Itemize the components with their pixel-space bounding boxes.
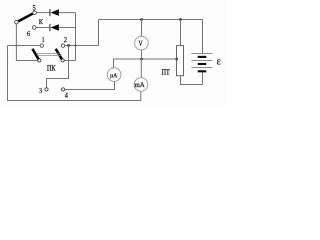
wire T1 to left rail: [8, 45, 41, 47]
battery cell 2: [191, 61, 212, 65]
node wiper PT tap: [175, 58, 178, 61]
PK pivot 2: [61, 59, 64, 62]
node top V lead: [140, 18, 143, 21]
wire D1 to junction riser: [59, 12, 76, 14]
switch K lever: [18, 14, 33, 22]
node diode riser crossing: [75, 45, 77, 47]
PK pivot 1: [38, 59, 41, 62]
label PT: [162, 69, 170, 74]
node junction wireA T3 riser: [67, 44, 70, 47]
wire uA top lead and wiper wire: [114, 59, 177, 68]
battery cell 3: [191, 68, 212, 72]
node top PT lead: [179, 18, 182, 21]
terminal 6: [32, 26, 36, 30]
label epsilon: [217, 59, 221, 64]
wire K pivot riser: [16, 24, 37, 61]
wire V top lead: [141, 20, 143, 37]
terminal 4: [62, 88, 65, 91]
label V: [139, 41, 143, 46]
PK lever 2: [56, 49, 62, 60]
diode D2: [50, 24, 59, 31]
wire V bottom lead: [141, 50, 143, 59]
label 5: [33, 5, 36, 10]
wire battery top lead: [202, 20, 204, 54]
wire mA bottom lead: [140, 91, 142, 100]
battery cell 1: [191, 54, 212, 57]
diode D1: [50, 9, 59, 16]
wire PT top lead: [180, 20, 182, 46]
node K riser crossing: [15, 45, 17, 47]
voltmeter V: [135, 36, 149, 50]
milliammeter mA: [134, 78, 148, 92]
wire D2 to junction riser: [59, 27, 76, 29]
label 2: [64, 37, 67, 42]
label 3: [40, 88, 42, 93]
terminal 5: [33, 11, 37, 15]
wire diode junction riser: [75, 13, 77, 61]
switch K pivot: [15, 20, 19, 24]
ammeter uA: [107, 68, 121, 82]
terminal 1: [40, 44, 43, 47]
wire corner riser up: [98, 20, 100, 46]
label 4: [65, 93, 68, 98]
node wiper V-mA tee: [140, 58, 143, 61]
label 6: [27, 31, 30, 36]
terminal 2: [61, 44, 64, 47]
label PK: [47, 65, 56, 71]
wire pivot2 to diode riser: [64, 60, 75, 62]
potentiometer PT body: [177, 46, 184, 76]
label uA: [110, 73, 117, 78]
label K: [39, 19, 43, 24]
PK coupling bar: [36, 53, 59, 55]
wire T5 to diode D1: [37, 12, 50, 14]
wire mA top lead: [140, 59, 142, 78]
wire left rail and bottom rail: [8, 46, 141, 101]
label 1: [42, 37, 44, 42]
PK lever 1: [32, 49, 38, 60]
terminal 3: [45, 88, 48, 91]
wire T4 to uA bottom: [65, 82, 115, 90]
wire T2 to corner riser: [65, 45, 99, 47]
wire top: [99, 19, 203, 21]
label mA: [135, 82, 145, 87]
wire PT bottom lead: [181, 71, 203, 84]
wire T3 riser: [47, 46, 69, 88]
wire T6 to diode D2: [36, 27, 49, 29]
